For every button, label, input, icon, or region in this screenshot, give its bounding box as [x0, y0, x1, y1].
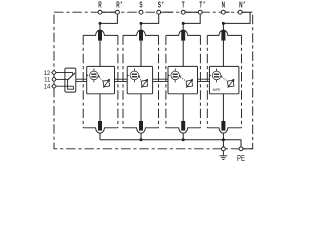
wire lower gap to PE bus cell 1: [99, 133, 101, 140]
svg-text:PE: PE: [237, 153, 245, 163]
label R': [116, 1, 122, 10]
solid wire segment T to T&apos;: [183, 11, 200, 13]
wire terminal pair L1 to junction: [100, 12, 117, 23]
trigger coupling dashed line cell 2: [139, 77, 141, 81]
label T': [199, 1, 204, 10]
mechanical linkage double line 2: [115, 79, 128, 81]
trigger-unit box cell 4: [209, 66, 239, 93]
bus junction node: [222, 138, 225, 141]
upper spark gap housing top edge with arc, cell 4: [207, 30, 241, 35]
PE terminal circle: [239, 147, 243, 151]
FM wire 14: [56, 85, 73, 87]
trigger-unit box cell 3: [168, 66, 198, 93]
svg-text:S: S: [158, 1, 162, 10]
svg-text:N: N: [222, 1, 226, 10]
svg-text:S: S: [139, 1, 143, 10]
wire inner box to lower spark gap cell 1: [99, 94, 101, 121]
trigger-unit box cell 2: [127, 66, 152, 93]
FM contact seat path: [68, 79, 74, 89]
mechanical linkage double line 4: [198, 79, 210, 81]
main spark gap symbol (stack in circle) cell 4: [209, 69, 222, 83]
upper spark gap housing top edge with arc, cell 1: [83, 30, 118, 35]
earth terminal circle: [221, 147, 225, 151]
trigger element square with arrow cell 3: [185, 79, 194, 88]
upper spark gap electrode bar cell 3: [181, 30, 185, 40]
arrester module L3 cell 3 enclosure side borders: [165, 35, 167, 127]
upper spark gap electrode bar cell 4: [221, 30, 225, 40]
wire inner box to lower spark gap cell 2: [140, 94, 142, 121]
svg-text:N: N: [239, 1, 243, 10]
lower spark gap housing bottom edge with arc, cell 1: [83, 128, 118, 133]
wire lower gap to PE bus cell 3: [182, 133, 184, 140]
junction node cell 4: [222, 22, 225, 25]
wire junction to upper spark gap cell 3: [182, 23, 184, 30]
trigger coupling dashed line cell 1: [99, 77, 103, 81]
short stub after N: [223, 11, 229, 13]
upper spark gap housing top edge with arc, cell 3: [166, 30, 201, 35]
terminal 11 circle: [52, 78, 56, 82]
terminal N: [221, 10, 225, 14]
terminal T': [198, 10, 202, 14]
svg-text:12: 12: [44, 71, 51, 77]
PE bus: [100, 140, 241, 147]
wire terminal pair N-PE to junction: [223, 12, 250, 23]
svg-text:R: R: [116, 1, 120, 10]
bus junction node: [182, 138, 185, 141]
junction node cell 3: [182, 22, 185, 25]
trigger-unit box cell 1: [87, 66, 115, 93]
wire junction to upper spark gap cell 2: [140, 23, 142, 30]
arrester module L1 cell 1 enclosure side borders: [82, 35, 84, 127]
lower spark gap electrode bar cell 4: [221, 121, 225, 131]
wire inner box to lower spark gap cell 3: [182, 94, 184, 121]
junction node cell 1: [99, 22, 102, 25]
arrester module L2 cell 2 enclosure side borders: [122, 35, 124, 127]
terminal 12 diamond: [52, 70, 57, 75]
label N': [239, 1, 245, 10]
upper spark gap electrode bar cell 2: [139, 30, 143, 40]
lower spark gap electrode bar cell 1: [98, 121, 102, 131]
main spark gap symbol (stack in circle) cell 3: [168, 69, 181, 83]
upper spark gap housing top edge with arc, cell 2: [123, 30, 159, 35]
terminal S: [139, 10, 143, 14]
long dash after S&apos;: [159, 11, 173, 13]
wire gap to inner box cell 3: [182, 41, 184, 67]
trigger element square with arrow cell 1: [102, 79, 111, 88]
terminal N': [238, 10, 242, 14]
wire gap to inner box cell 4: [222, 41, 224, 67]
terminal R: [98, 10, 102, 14]
svg-text:R: R: [98, 1, 102, 10]
solid wire segment R to R&apos;: [100, 11, 117, 13]
wire gap to inner box cell 2: [140, 41, 142, 67]
lower spark gap housing bottom edge with arc, cell 3: [166, 128, 201, 133]
terminal S': [157, 10, 161, 14]
wire bus to earth terminal: [222, 140, 224, 147]
FM remote-signalling contact box: [65, 68, 76, 92]
trigger element square with arrow cell 2: [140, 79, 149, 88]
outer enclosure dash-dot border: [54, 12, 253, 149]
trigger element square with arrow cell 4: [227, 79, 236, 88]
wire inner box to lower spark gap cell 4: [222, 94, 224, 121]
junction node cell 2: [140, 22, 143, 25]
mechanical linkage double line 3: [153, 79, 168, 81]
FM wire 12: [56, 73, 72, 75]
bus junction node: [140, 138, 143, 141]
lower spark gap electrode bar cell 3: [181, 121, 185, 131]
wire terminal pair L3 to junction: [183, 12, 200, 23]
svg-text:14: 14: [44, 84, 51, 90]
upper spark gap electrode bar cell 1: [98, 30, 102, 40]
wire lower gap to PE bus cell 2: [140, 133, 142, 140]
trigger coupling dashed line cell 3: [180, 77, 186, 81]
wire terminal pair L2 to junction: [141, 12, 159, 23]
main spark gap symbol (stack in circle) cell 1: [87, 69, 100, 83]
svg-text:N/PE: N/PE: [213, 88, 222, 92]
label S': [158, 1, 164, 10]
FM wire 11: [56, 78, 68, 80]
terminal 14 diamond: [52, 84, 57, 89]
wire lower gap to PE bus cell 4: [222, 133, 224, 140]
arrester module N-PE cell 4 enclosure side borders: [206, 35, 208, 127]
wire gap to inner box cell 1: [99, 41, 101, 67]
terminal R': [115, 10, 119, 14]
trigger coupling dashed line cell 4: [222, 77, 228, 81]
main spark gap symbol (stack in circle) cell 2: [127, 69, 140, 83]
lower spark gap housing bottom edge with arc, cell 2: [123, 128, 159, 133]
earth ground symbol: [220, 151, 228, 160]
terminal T: [181, 10, 185, 14]
wire junction to upper spark gap cell 4: [222, 23, 224, 30]
FM changeover contact arm: [68, 73, 75, 80]
bottom border solid stub right of PE terminal: [243, 148, 253, 150]
mechanical linkage double line 1: [76, 79, 87, 81]
lower spark gap housing bottom edge with arc, cell 4: [207, 128, 241, 133]
wire junction to upper spark gap cell 1: [99, 23, 101, 30]
lower spark gap electrode bar cell 2: [139, 121, 143, 131]
svg-text:11: 11: [44, 78, 51, 84]
